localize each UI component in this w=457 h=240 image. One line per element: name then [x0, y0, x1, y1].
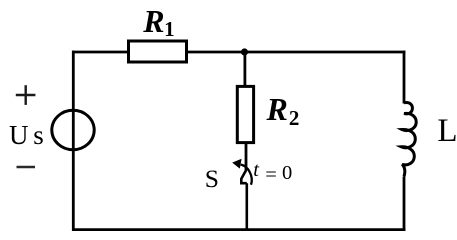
- wire left vertical: [72, 51, 75, 231]
- label t = 0: [253, 159, 292, 182]
- switch S motion arc: [241, 165, 252, 185]
- resistor R2 body: [237, 86, 253, 142]
- resistor R1 body: [129, 41, 187, 62]
- voltage source US circle: [52, 110, 94, 149]
- minus sign: [17, 166, 36, 169]
- inductor L coil: [401, 103, 416, 177]
- label Us: [9, 120, 44, 151]
- wire right vertical upper: [403, 51, 406, 104]
- node junction dot: [241, 48, 248, 55]
- plus sign: [16, 85, 36, 105]
- label R2: [267, 91, 300, 132]
- wire middle branch mid (R2 to switch): [245, 140, 248, 170]
- switch S arrowhead: [232, 159, 241, 169]
- wire bottom horizontal: [72, 228, 405, 231]
- label S: [205, 164, 219, 194]
- wire right vertical lower: [403, 177, 406, 232]
- wire middle branch lower (switch to bottom): [246, 183, 249, 230]
- wire top horizontal: [72, 51, 405, 54]
- label R1: [143, 3, 174, 42]
- label L: [437, 113, 457, 150]
- switch S blade zigzag: [241, 170, 247, 183]
- wire middle branch upper (node to R2): [243, 52, 246, 90]
